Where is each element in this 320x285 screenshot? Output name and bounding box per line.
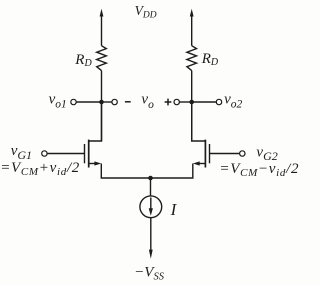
transistor Q1 [47,102,150,178]
label plus sign [165,101,172,103]
svg-text:vo: vo [141,92,154,111]
terminal vG2 [240,151,245,156]
power -VSS arrow [149,250,153,259]
svg-text:RD: RD [74,52,92,69]
node vo2 terminal [192,99,222,104]
power VDD arrow left [100,9,104,46]
label minus sign [125,101,131,103]
wire common source to current source [150,178,152,196]
svg-text:I: I [170,200,178,219]
svg-text:vo1: vo1 [49,92,67,111]
terminal vo plus side [174,99,192,104]
transistor Q2 [151,102,240,178]
wire current source to VSS [150,218,152,251]
svg-text:VDD: VDD [135,3,157,21]
svg-text:RD: RD [201,51,219,68]
resistor RD right [187,46,197,71]
svg-text:−VSS: −VSS [134,265,165,283]
resistor RD left [97,46,107,71]
junction common source node [148,176,153,181]
wire left branch resistor to drain [101,71,103,141]
svg-text:=VCM+vid/2: =VCM+vid/2 [0,160,80,178]
svg-text:=VCM−vid/2: =VCM−vid/2 [219,161,299,179]
svg-text:vo2: vo2 [224,92,242,111]
wire right branch resistor to drain [191,71,193,141]
terminal vG1 [42,151,47,156]
current source I [140,196,162,218]
terminal vo minus side [102,99,118,104]
junction right drain node [189,100,194,105]
node vo1 terminal [71,99,102,104]
power VDD arrow right [190,9,194,46]
junction left drain node [99,100,104,105]
